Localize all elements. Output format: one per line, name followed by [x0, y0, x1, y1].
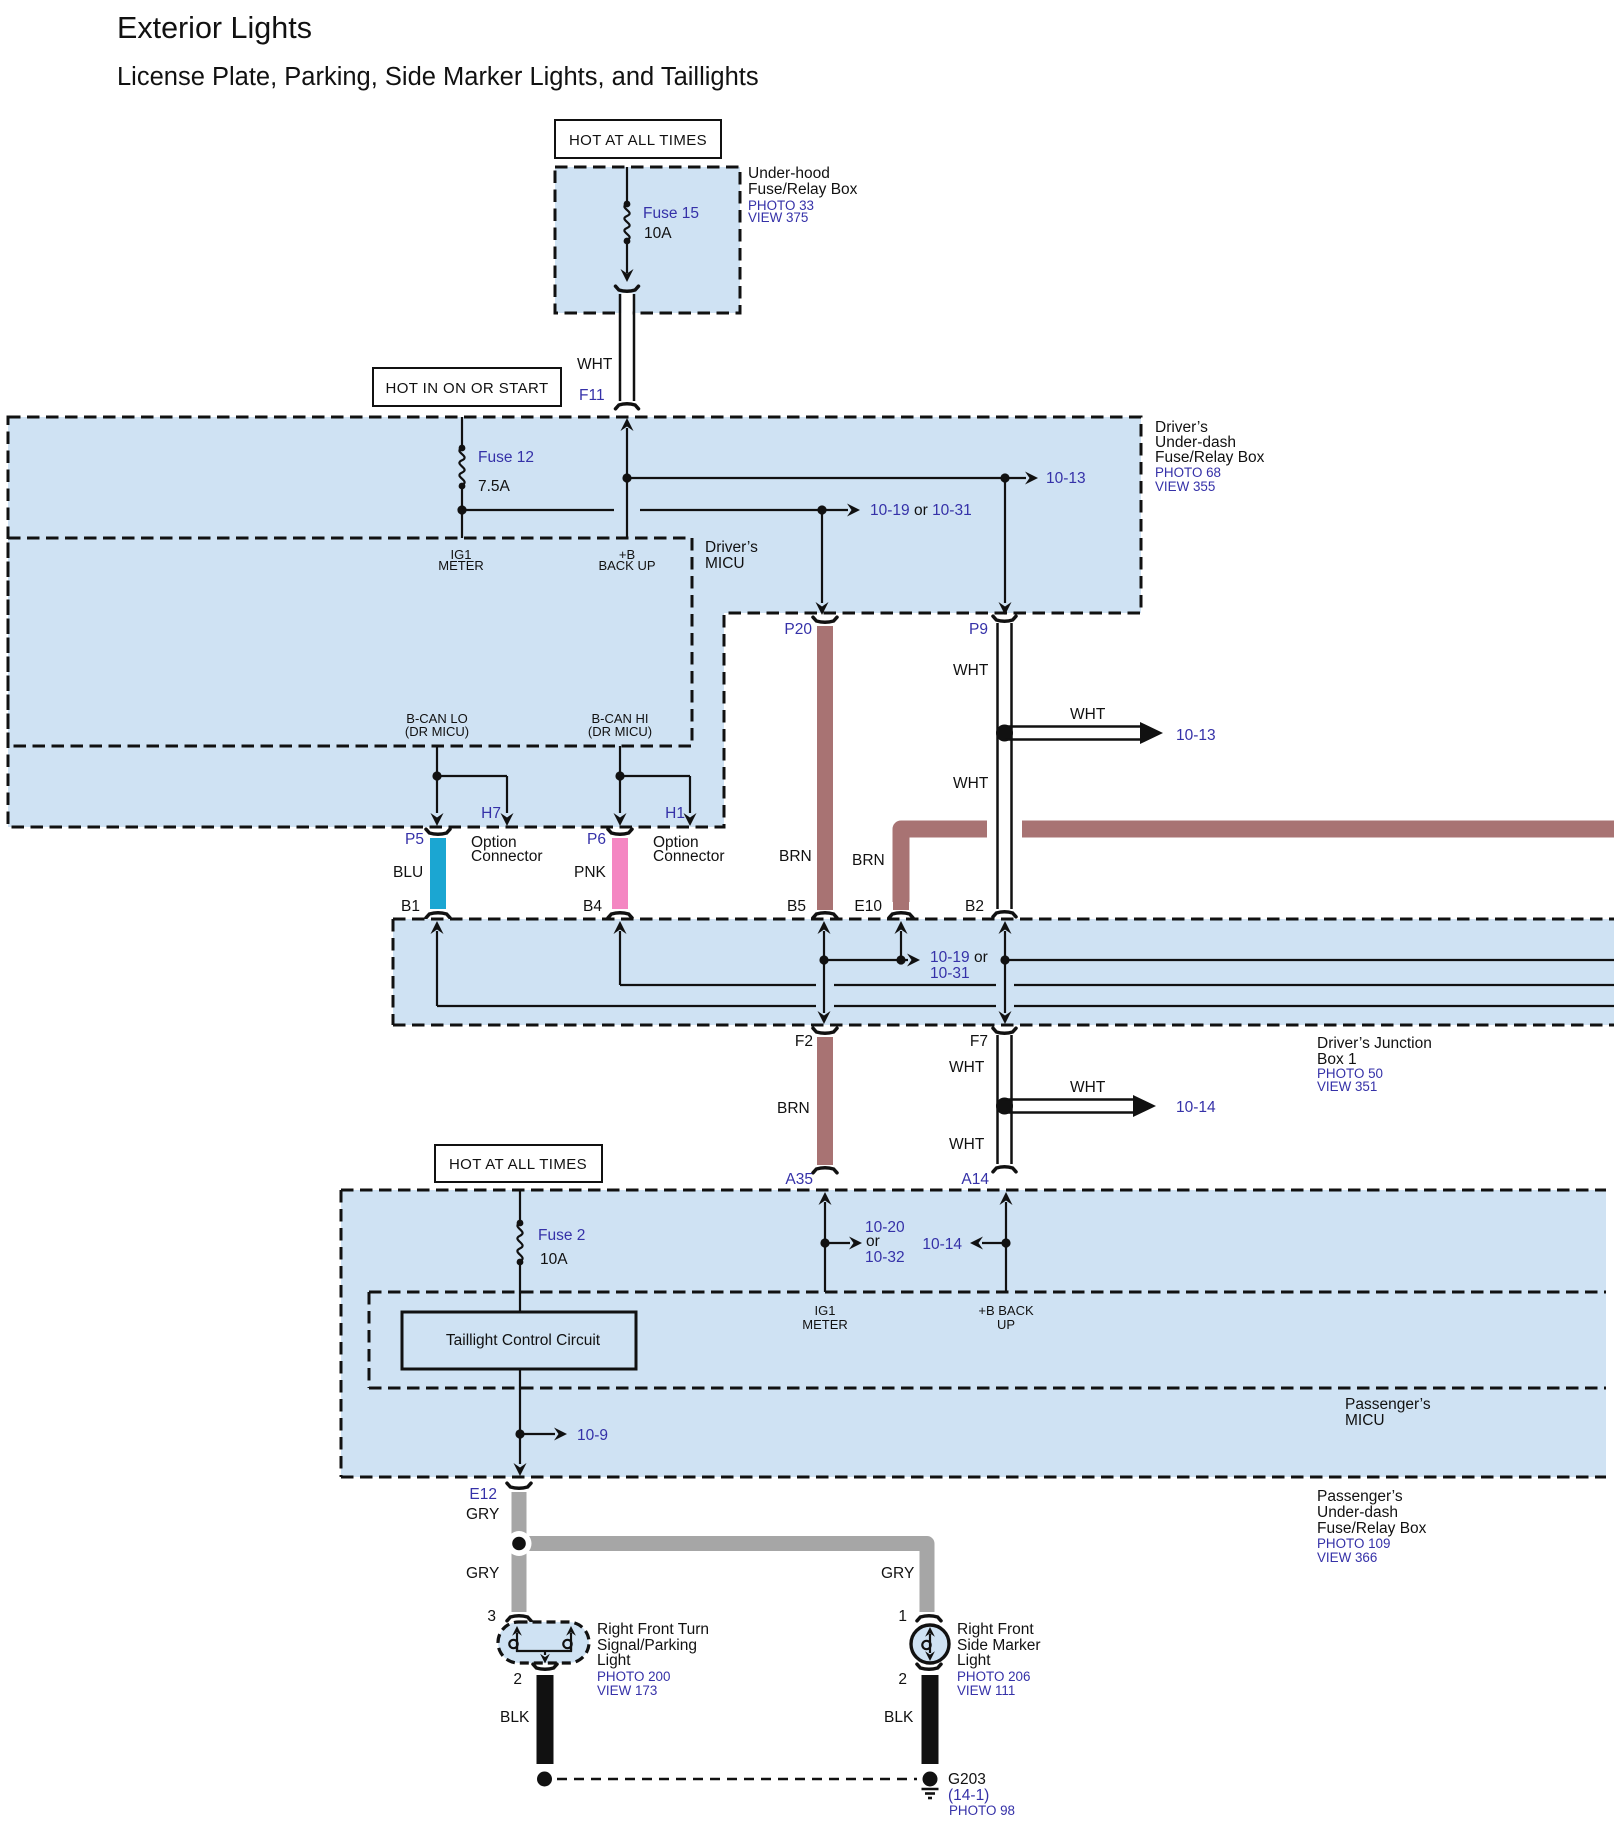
svg-text:B2: B2: [965, 898, 984, 915]
svg-text:Driver’s Junction: Driver’s Junction: [1317, 1035, 1432, 1052]
svg-text:Connector: Connector: [471, 848, 543, 865]
svg-text:WHT: WHT: [1070, 1079, 1106, 1096]
Under-hood Fuse/Relay Box: [555, 165, 858, 313]
svg-text:WHT: WHT: [953, 775, 989, 792]
svg-text:WHT: WHT: [577, 356, 613, 373]
svg-text:BRN: BRN: [852, 852, 885, 869]
wire BRN F2 to A35: [777, 1028, 837, 1188]
Passenger's Under-dash Fuse/Relay Box: [341, 1190, 1606, 1565]
pin IG1 METER (passenger MICU): [802, 1303, 848, 1332]
svg-text:WHT: WHT: [949, 1136, 985, 1153]
svg-text:BLK: BLK: [500, 1709, 530, 1726]
wire B4 through junction box to right: [614, 921, 1614, 985]
fuse Fuse 12 7.5A: [459, 417, 534, 538]
svg-text:Fuse 2: Fuse 2: [538, 1227, 585, 1244]
ground link dashed wire: [537, 1772, 938, 1787]
labels turn signal light: [597, 1621, 709, 1698]
svg-text:2: 2: [898, 1671, 907, 1688]
Taillight Control Circuit block: [402, 1312, 636, 1369]
svg-text:(DR MICU): (DR MICU): [588, 724, 652, 739]
svg-text:+B BACK: +B BACK: [978, 1303, 1034, 1318]
svg-text:10A: 10A: [540, 1251, 568, 1268]
svg-text:Driver’s: Driver’s: [705, 539, 758, 556]
pin +B BACK UP (driver MICU): [598, 547, 655, 573]
junction dot on Fuse 12 wire: [457, 505, 466, 514]
wire E10 into junction box: [895, 921, 908, 965]
svg-text:(DR MICU): (DR MICU): [405, 724, 469, 739]
svg-text:License Plate, Parking, Side M: License Plate, Parking, Side Marker Ligh…: [117, 63, 759, 91]
svg-text:F7: F7: [970, 1033, 988, 1050]
svg-text:F2: F2: [795, 1033, 813, 1050]
wire B1 through junction box to right: [431, 921, 1614, 1006]
svg-text:10-14: 10-14: [922, 1236, 962, 1253]
junction dot and WHT branch arrow to 10-14: [996, 1079, 1216, 1117]
svg-text:10-19 or 10-31: 10-19 or 10-31: [870, 502, 972, 519]
svg-text:H7: H7: [481, 805, 501, 822]
svg-text:METER: METER: [802, 1317, 848, 1332]
svg-text:10-32: 10-32: [865, 1249, 905, 1266]
wire to 10-19 or 10-31 (top): [462, 502, 972, 519]
svg-text:B4: B4: [583, 898, 602, 915]
svg-text:WHT: WHT: [953, 662, 989, 679]
wire WHT F11 (under-hood box to under-dash box): [577, 286, 639, 409]
connector E12: [469, 1483, 531, 1503]
svg-text:VIEW 366: VIEW 366: [1317, 1550, 1377, 1565]
svg-text:10-14: 10-14: [1176, 1099, 1216, 1116]
wire GRY branch to side marker light: [519, 1544, 927, 1613]
svg-text:WHT: WHT: [949, 1059, 985, 1076]
label box HOT AT ALL TIMES (top): [555, 120, 721, 158]
junction dot and WHT branch arrow to 10-13: [996, 706, 1216, 744]
svg-text:Light: Light: [597, 1652, 631, 1669]
pin +B BACK UP (passenger MICU): [978, 1303, 1034, 1332]
svg-text:H1: H1: [665, 805, 685, 822]
svg-text:7.5A: 7.5A: [478, 478, 511, 495]
svg-text:E12: E12: [469, 1486, 497, 1503]
svg-text:METER: METER: [438, 558, 484, 573]
wire B-CAN HI split to P6 and H1: [614, 746, 697, 826]
fuse Fuse 2 10A: [517, 1190, 586, 1312]
svg-text:Light: Light: [957, 1652, 991, 1669]
svg-text:Under-hood: Under-hood: [748, 165, 830, 182]
Driver's MICU (inner dashed box): [8, 538, 758, 746]
svg-text:BLK: BLK: [884, 1709, 914, 1726]
wire BLK from side marker light: [922, 1675, 939, 1764]
wire from taillight control to E12 with 10-9 branch: [514, 1369, 609, 1476]
lamp Right Front Turn Signal/Parking Light: [498, 1622, 589, 1664]
wire B2 to F7 through junction box: [999, 921, 1614, 1024]
svg-text:Passenger’s: Passenger’s: [1317, 1488, 1403, 1505]
svg-text:10-9: 10-9: [577, 1427, 608, 1444]
wire BRN to E10 (from taillights, right side): [852, 829, 1614, 918]
wire BLK from turn signal light: [537, 1675, 554, 1764]
svg-text:PHOTO 206: PHOTO 206: [957, 1669, 1030, 1684]
svg-text:PHOTO 68: PHOTO 68: [1155, 465, 1221, 480]
svg-text:1: 1: [898, 1608, 907, 1625]
svg-text:VIEW 375: VIEW 375: [748, 210, 808, 225]
svg-text:E10: E10: [854, 898, 882, 915]
svg-text:B5: B5: [787, 898, 806, 915]
svg-text:VIEW 351: VIEW 351: [1317, 1079, 1377, 1094]
svg-text:P20: P20: [784, 621, 812, 638]
svg-text:VIEW 355: VIEW 355: [1155, 479, 1215, 494]
connector at pin 2 of turn signal light: [533, 1664, 557, 1669]
svg-text:VIEW 111: VIEW 111: [957, 1683, 1015, 1698]
svg-text:P9: P9: [969, 621, 988, 638]
connector at pin 1: [917, 1616, 941, 1621]
svg-text:Fuse/Relay Box: Fuse/Relay Box: [748, 181, 858, 198]
svg-text:PNK: PNK: [574, 864, 607, 881]
connector P5-B1 BLU jumper (option connector): [393, 829, 543, 918]
svg-text:PHOTO 109: PHOTO 109: [1317, 1536, 1390, 1551]
Driver's Under-dash Fuse/Relay Box: [8, 417, 1265, 827]
label box HOT IN ON OR START: [373, 368, 561, 406]
svg-text:HOT AT ALL TIMES: HOT AT ALL TIMES: [569, 132, 707, 149]
svg-text:HOT IN ON OR START: HOT IN ON OR START: [385, 380, 548, 397]
pin B-CAN LO (DR MICU): [405, 711, 469, 739]
svg-text:PHOTO 200: PHOTO 200: [597, 1669, 670, 1684]
wire B-CAN LO split to P5 and H7: [431, 746, 514, 826]
Driver's Junction Box 1: [393, 919, 1614, 1094]
pin B-CAN HI (DR MICU): [588, 711, 652, 739]
fuse Fuse 15 10A: [621, 167, 700, 282]
svg-text:P5: P5: [405, 831, 424, 848]
wire from F11 into +B BACK UP pin: [621, 418, 634, 538]
wire drop to P9: [999, 478, 1012, 615]
svg-text:10A: 10A: [644, 225, 672, 242]
svg-text:MICU: MICU: [1345, 1412, 1385, 1429]
labels side marker light: [957, 1621, 1041, 1698]
svg-text:UP: UP: [997, 1317, 1015, 1332]
svg-text:Fuse 12: Fuse 12: [478, 449, 534, 466]
svg-text:B1: B1: [401, 898, 420, 915]
svg-text:BACK UP: BACK UP: [598, 558, 655, 573]
ground symbol G203: [922, 1771, 1016, 1818]
svg-text:G203: G203: [948, 1771, 986, 1788]
wire from A35 into IG1 METER pin: [819, 1192, 906, 1292]
svg-text:10-31: 10-31: [930, 965, 970, 982]
wire WHT F7 to A14: [949, 1028, 1016, 1188]
wire to 10-13 (top): [627, 470, 1086, 487]
svg-text:Passenger’s: Passenger’s: [1345, 1396, 1431, 1413]
svg-text:Fuse/Relay Box: Fuse/Relay Box: [1317, 1520, 1427, 1537]
junction dot on GRY wire: [507, 1531, 532, 1556]
wire drop to P20: [816, 510, 829, 615]
wire B5 to F2 through junction box: [818, 921, 831, 1024]
svg-text:P6: P6: [587, 831, 606, 848]
connector at pin 3: [507, 1616, 531, 1621]
svg-text:F11: F11: [579, 387, 605, 404]
svg-text:Right Front Turn: Right Front Turn: [597, 1621, 709, 1638]
svg-text:HOT AT ALL TIMES: HOT AT ALL TIMES: [449, 1156, 587, 1173]
labels GRY: [466, 1506, 914, 1582]
lamp Right Front Side Marker Light: [911, 1625, 949, 1663]
svg-text:GRY: GRY: [466, 1565, 499, 1582]
svg-text:2: 2: [513, 1671, 522, 1688]
svg-text:GRY: GRY: [881, 1565, 914, 1582]
svg-text:IG1: IG1: [815, 1303, 836, 1318]
svg-text:10-13: 10-13: [1176, 727, 1216, 744]
wire branch to 10-19 or 10-31 (junction box): [824, 949, 988, 982]
svg-text:Connector: Connector: [653, 848, 725, 865]
pin IG1 METER (driver MICU): [438, 547, 484, 573]
svg-text:Taillight Control Circuit: Taillight Control Circuit: [446, 1332, 601, 1349]
svg-text:VIEW 173: VIEW 173: [597, 1683, 657, 1698]
svg-text:WHT: WHT: [1070, 706, 1106, 723]
svg-text:(14-1): (14-1): [948, 1787, 989, 1804]
wire BRN P20 to B5: [779, 617, 837, 918]
wire from A14 into +B BACK UP pin: [922, 1192, 1012, 1292]
svg-text:Under-dash: Under-dash: [1317, 1504, 1398, 1521]
svg-text:BLU: BLU: [393, 864, 423, 881]
connector at pin 2 of side marker light: [917, 1664, 941, 1669]
svg-text:A14: A14: [961, 1171, 989, 1188]
Passenger's MICU (inner dashed box): [369, 1292, 1606, 1429]
svg-text:MICU: MICU: [705, 555, 745, 572]
svg-text:PHOTO 98: PHOTO 98: [949, 1803, 1015, 1818]
svg-text:3: 3: [487, 1608, 496, 1625]
svg-text:or: or: [866, 1233, 880, 1250]
labels BLK: [500, 1709, 914, 1726]
svg-text:BRN: BRN: [779, 848, 812, 865]
svg-text:Right Front: Right Front: [957, 1621, 1034, 1638]
svg-text:BRN: BRN: [777, 1100, 810, 1117]
svg-text:A35: A35: [785, 1171, 813, 1188]
svg-text:GRY: GRY: [466, 1506, 499, 1523]
svg-text:10-13: 10-13: [1046, 470, 1086, 487]
svg-text:10-19 or: 10-19 or: [930, 949, 988, 966]
label box HOT AT ALL TIMES (passenger): [435, 1145, 602, 1182]
svg-text:Fuse 15: Fuse 15: [643, 205, 699, 222]
connector P6-B4 PNK jumper (option connector): [574, 829, 725, 918]
wire GRY from E12 down: [512, 1492, 527, 1612]
svg-text:Fuse/Relay Box: Fuse/Relay Box: [1155, 449, 1265, 466]
svg-text:Exterior Lights: Exterior Lights: [117, 11, 312, 45]
wire WHT P9 to B2: [953, 616, 1021, 917]
